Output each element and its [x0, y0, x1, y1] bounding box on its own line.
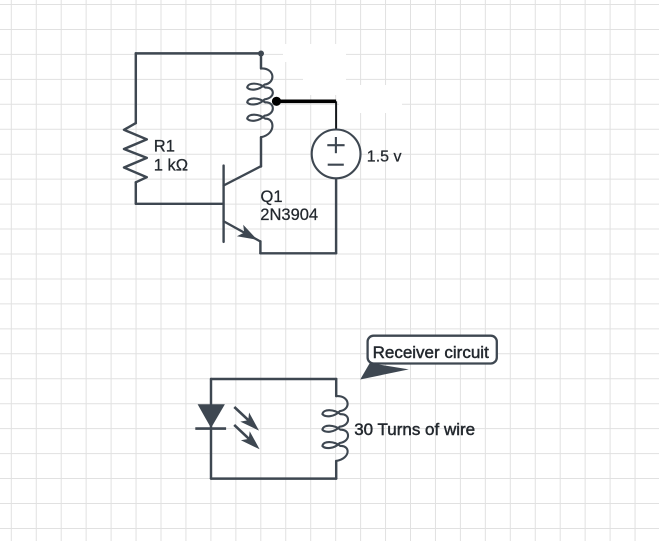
svg-text:Q1: Q1: [261, 188, 283, 206]
callout tail: [360, 363, 409, 380]
wire: left vertical lower: [135, 182, 137, 204]
wire: battery bottom lead: [335, 178, 337, 253]
wire: left vertical upper: [135, 53, 137, 123]
wire: coil top stub: [260, 54, 262, 69]
junction dot (tap): [272, 97, 281, 106]
wire: bottom horizontal: [260, 252, 336, 254]
wire: receiver left vertical: [210, 379, 212, 479]
transistor Q1 emitter arrowhead: [237, 225, 257, 240]
white erase patch B (vertical band): [303, 50, 346, 95]
svg-text:30 Turns of wire: 30 Turns of wire: [354, 420, 475, 439]
wire: base wire: [136, 203, 223, 205]
wire: receiver right stub top: [335, 379, 337, 396]
white erase patch A (over grid, above tap wire): [283, 44, 345, 62]
photodiode D1 cathode bar: [195, 427, 226, 430]
photodiode D1 triangle: [198, 404, 225, 428]
wire: receiver top: [211, 378, 336, 380]
inductor L2 (receiver coil, 30 turns): [322, 396, 348, 461]
junction dot (top): [258, 51, 264, 57]
battery V1 1.5v: [312, 130, 361, 179]
thick tap wire: [277, 100, 337, 104]
wire: receiver right stub bottom: [335, 461, 337, 479]
wire: collector vertical: [260, 137, 262, 166]
transistor Q1: [224, 166, 261, 242]
wire: emitter to bottom: [259, 241, 261, 253]
inductor L1 (transmitter coil): [247, 68, 273, 137]
resistor R1: [124, 123, 147, 182]
svg-text:R1: R1: [154, 138, 175, 156]
light arrow 1: [234, 407, 259, 431]
svg-text:1 kΩ: 1 kΩ: [154, 156, 188, 174]
svg-text:2N3904: 2N3904: [260, 206, 318, 224]
svg-text:Receiver circuit: Receiver circuit: [373, 343, 489, 362]
light arrow 2: [234, 425, 259, 449]
wire: top horizontal: [136, 52, 261, 54]
receiver loop wires: [211, 379, 348, 479]
svg-text:1.5 v: 1.5 v: [367, 148, 402, 165]
wire: battery top lead: [335, 101, 337, 129]
white erase patch C (right of tap wire corner): [339, 85, 402, 113]
wire: receiver bottom: [211, 477, 336, 479]
callout bubble: Receiver circuit: [368, 336, 497, 364]
